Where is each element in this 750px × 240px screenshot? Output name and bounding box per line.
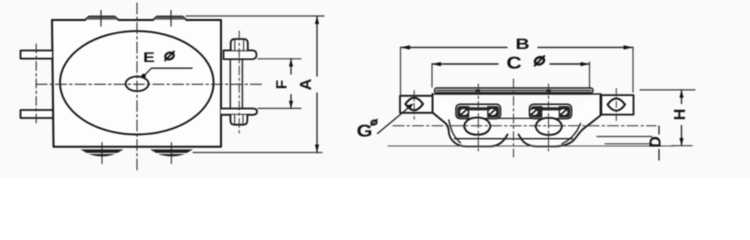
extension line F top [258, 58, 301, 60]
centerline foot 1 [101, 143, 103, 164]
bolt head facets [234, 40, 236, 50]
svg-text:E: E [143, 49, 155, 65]
bracket plate verticals [229, 59, 231, 108]
witness line C right [589, 62, 591, 87]
foot bolt right (under bottom edge) [150, 149, 193, 156]
wheel2 rim line [523, 138, 573, 140]
phi superscript for G [370, 119, 379, 126]
centerline top lug 2 [170, 11, 172, 27]
big circle (roller face) [60, 31, 214, 134]
centerline vertical main (left view) [136, 3, 138, 170]
svg-text:C: C [506, 54, 521, 73]
centerline left tabs vertical [35, 44, 37, 125]
dimension A line [316, 16, 318, 76]
svg-text:F: F [274, 80, 291, 89]
bolt 1b [488, 108, 497, 115]
frame right diagonal + wheel2 boat bowl [519, 94, 601, 146]
body outline (plan view plate with top lugs) [52, 17, 221, 147]
centerline right lug [615, 89, 617, 123]
svg-text:H: H [672, 109, 689, 121]
top plate (rail bar) [435, 88, 594, 93]
bearing housing 2 [530, 104, 572, 118]
bolt 2a [530, 109, 539, 116]
bearing housing 1 [456, 104, 501, 118]
ext line H top [640, 89, 695, 91]
ext line H bottom [672, 145, 692, 147]
centerline horizontal main (left view) [36, 83, 264, 85]
dimension F line [290, 59, 292, 74]
witness line B right [632, 47, 634, 92]
phi symbol after C [532, 55, 546, 66]
wheel1 inner bowl curve [449, 120, 461, 143]
wheel 2 hub [536, 118, 563, 135]
centerline left lug [413, 91, 415, 120]
left lug [400, 96, 433, 113]
left lug hole G [405, 98, 423, 110]
left tab lower [21, 110, 53, 118]
hub circle E [126, 77, 149, 92]
ext lines D [597, 136, 652, 138]
centerline wheels horizontal [393, 125, 656, 127]
svg-text:B: B [515, 36, 529, 53]
svg-text:G: G [357, 122, 373, 141]
dimension C [432, 54, 590, 88]
centerline bracket bolt [238, 31, 240, 135]
wheel 1 hub [464, 118, 491, 135]
centerline top lug 1 [100, 11, 102, 27]
top lug 1 hatched fill [85, 17, 119, 20]
wheel1 rim line [455, 138, 522, 140]
bracket bottom flange [221, 109, 257, 115]
bolt 1a [459, 108, 468, 115]
witness line B left [400, 47, 402, 95]
extension line F bottom [258, 107, 301, 109]
bolt 2b [559, 109, 568, 116]
right lug [601, 95, 633, 115]
phi symbol after E [163, 51, 176, 61]
rail baseline [388, 145, 673, 147]
frame bottom middle segment [499, 117, 531, 119]
dimension D [597, 126, 665, 160]
leader for E [144, 68, 192, 76]
left tab upper [21, 51, 53, 59]
side frame top edge [433, 93, 601, 95]
extension line top (A) [186, 15, 324, 17]
bracket top flange [224, 50, 257, 59]
centerline main vertical (right view) [513, 79, 515, 157]
right lug hole [608, 99, 626, 111]
witness line C left [431, 64, 433, 87]
centerline foot 2 [170, 143, 172, 164]
dimension H [640, 90, 695, 146]
bottom nut [230, 115, 247, 125]
top lug 2 hatched fill [153, 17, 187, 20]
dimension B [401, 36, 634, 95]
extension line bottom (A) [193, 152, 322, 154]
svg-text:A: A [298, 78, 315, 90]
frame left diagonal + wheel1 boat bowl [433, 94, 508, 146]
leader G [378, 106, 411, 134]
wheel2 inner bowl curve [562, 124, 581, 144]
centerline wheel2 vertical [548, 84, 550, 153]
foot bolt left (under bottom edge) [81, 149, 124, 156]
svg-text:D: D [648, 136, 665, 148]
centerline wheel1 vertical [477, 84, 479, 153]
bolt head top [231, 39, 248, 50]
